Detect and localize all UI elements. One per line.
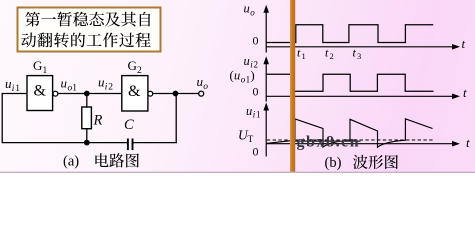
svg-text:o: o bbox=[250, 7, 255, 17]
svg-text:(b): (b) bbox=[325, 155, 342, 171]
svg-text:0: 0 bbox=[253, 85, 259, 99]
wire: G2 output to u_o terminal bbox=[153, 93, 199, 95]
caption (a) 电路图 bbox=[63, 153, 139, 169]
threshold label U_T bbox=[238, 128, 254, 146]
axis: u_o waveform axes bbox=[263, 5, 460, 53]
svg-text:t: t bbox=[325, 46, 329, 60]
svg-text:2: 2 bbox=[330, 51, 334, 61]
svg-text:): ) bbox=[251, 69, 255, 83]
caption (b) 波形图 bbox=[325, 155, 398, 171]
axis label u_o bbox=[244, 2, 256, 18]
svg-text:u: u bbox=[234, 69, 240, 83]
svg-text:1: 1 bbox=[43, 66, 48, 76]
axis label (u_o1) bbox=[230, 69, 255, 85]
watermark gbx8.cn bbox=[295, 133, 361, 150]
node label u_o bbox=[197, 74, 209, 92]
node u_o1 junction dot bbox=[84, 91, 90, 97]
bottom border line bbox=[0, 171, 475, 173]
G2 inverter bubble bbox=[148, 91, 153, 96]
G1 inverter bubble bbox=[53, 91, 58, 96]
svg-text:G: G bbox=[128, 58, 137, 73]
waveform u_o square wave bbox=[266, 25, 433, 43]
junction dot bottom rail at R bbox=[84, 140, 90, 146]
axis: u_i2 waveform axes bbox=[263, 56, 460, 101]
svg-text:t: t bbox=[463, 85, 467, 100]
svg-text:G: G bbox=[33, 58, 42, 73]
node label u_i2 bbox=[98, 74, 113, 92]
svg-text:1: 1 bbox=[302, 51, 306, 61]
svg-text:t: t bbox=[353, 46, 357, 60]
resistor R bbox=[82, 107, 92, 129]
time labels t1 t2 t3 bbox=[297, 46, 361, 62]
svg-text:2: 2 bbox=[137, 66, 142, 76]
svg-text:3: 3 bbox=[357, 51, 361, 61]
svg-text:1: 1 bbox=[72, 84, 77, 94]
svg-text:u: u bbox=[244, 54, 250, 68]
label G1 bbox=[33, 58, 48, 76]
svg-text:(a): (a) bbox=[63, 154, 79, 170]
wire: G1 output to G2 input bbox=[58, 93, 122, 95]
threshold dashed line U_T bbox=[267, 139, 434, 141]
svg-text:t: t bbox=[297, 46, 301, 60]
svg-text:o: o bbox=[203, 82, 208, 92]
wire: resistor to bottom rail bbox=[86, 129, 88, 143]
svg-text:u: u bbox=[61, 76, 68, 91]
wire: u_o node down to capacitor bbox=[133, 94, 177, 144]
svg-text:t: t bbox=[466, 135, 470, 150]
axis label u_i2 bbox=[244, 54, 259, 70]
svg-text:2: 2 bbox=[108, 82, 113, 92]
svg-text:0: 0 bbox=[253, 144, 259, 158]
svg-text:R: R bbox=[93, 112, 103, 128]
svg-text:&: & bbox=[128, 83, 141, 100]
wire: feedback bottom rail and left riser to G1 input bbox=[2, 94, 128, 144]
svg-text:t: t bbox=[462, 36, 466, 51]
waveform u_i1 trigger sawtooth bbox=[266, 119, 432, 147]
capacitor C plates bbox=[128, 139, 133, 151]
axis: u_i1 waveform axes bbox=[263, 103, 460, 157]
gate U G1 (NAND) bbox=[27, 76, 53, 111]
svg-text:1: 1 bbox=[256, 110, 261, 120]
node label u_o1 bbox=[61, 76, 78, 94]
svg-text:0: 0 bbox=[253, 34, 259, 48]
svg-text:&: & bbox=[34, 83, 47, 100]
svg-text:C: C bbox=[124, 117, 134, 133]
svg-text:u: u bbox=[246, 104, 252, 118]
axis label u_i1 bbox=[246, 104, 261, 120]
waveform u_i2 square wave bbox=[266, 74, 433, 91]
junction dot u_o feedback node bbox=[173, 91, 179, 97]
svg-text:1: 1 bbox=[15, 84, 20, 94]
label G2 bbox=[128, 58, 143, 76]
gate U G2 (NAND) bbox=[122, 76, 148, 111]
svg-text:1: 1 bbox=[246, 74, 251, 84]
wire: u_o1 node down to resistor bbox=[86, 94, 88, 108]
node label u_i1 bbox=[5, 76, 20, 94]
title box 第一暂稳态及其自动翻转的工作过程 bbox=[18, 8, 161, 52]
svg-text:u: u bbox=[244, 2, 250, 16]
terminal u_o (open circle) bbox=[199, 91, 204, 96]
